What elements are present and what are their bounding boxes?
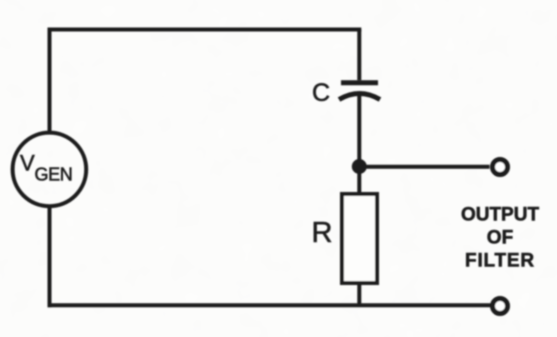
output terminal top (493, 160, 508, 175)
svg-text:OF: OF (487, 228, 513, 249)
svg-text:GEN: GEN (35, 165, 73, 185)
resistor R (342, 194, 377, 283)
svg-text:R: R (312, 217, 333, 249)
wire capacitor to node (357, 95, 361, 167)
node (junction dot) (353, 161, 365, 173)
output terminal bottom (493, 299, 508, 314)
svg-text:V: V (20, 151, 35, 176)
svg-text:FILTER: FILTER (465, 251, 535, 272)
capacitor C (339, 83, 380, 100)
wire resistor to bottom wire (357, 283, 361, 305)
wire bottom horizontal (48, 303, 491, 307)
wire top horizontal (48, 28, 362, 32)
voltage source VGEN (13, 133, 87, 207)
wire left vertical (source bottom to bottom wire) (48, 208, 52, 308)
wire right branch (top wire to capacitor) (357, 30, 361, 81)
wire node to resistor (357, 167, 361, 197)
wire node to top output terminal (359, 165, 489, 169)
wire left vertical (top of source to top wire) (48, 28, 52, 132)
svg-text:C: C (312, 79, 330, 107)
label OUTPUT OF FILTER (461, 205, 540, 272)
svg-text:OUTPUT: OUTPUT (461, 205, 540, 226)
